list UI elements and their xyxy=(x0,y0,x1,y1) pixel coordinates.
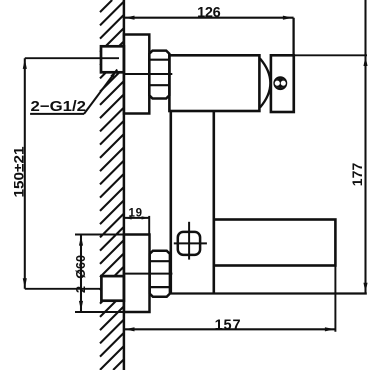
svg-text:19: 19 xyxy=(129,207,143,219)
svg-text:2−G1/2: 2−G1/2 xyxy=(31,99,87,115)
svg-text:126: 126 xyxy=(197,5,221,21)
svg-text:150±21: 150±21 xyxy=(11,146,27,197)
svg-text:177: 177 xyxy=(349,163,365,187)
svg-text:2−Ø60: 2−Ø60 xyxy=(73,255,88,293)
svg-text:157: 157 xyxy=(215,318,241,334)
